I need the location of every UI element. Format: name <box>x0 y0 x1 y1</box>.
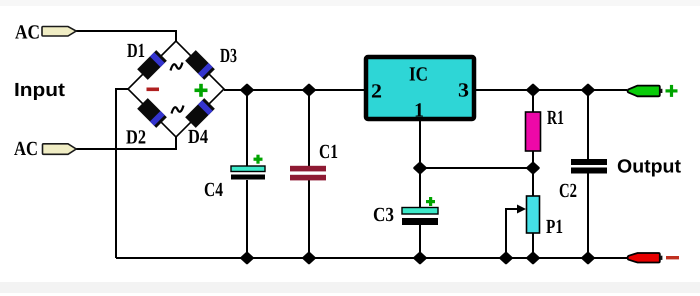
node junction IC pin1 / R1 wire left <box>415 163 425 173</box>
bridge minus sign <box>147 88 160 92</box>
svg-text:AC: AC <box>15 22 40 44</box>
wire top AC to bridge top node <box>76 31 176 42</box>
svg-text:C1: C1 <box>319 141 338 163</box>
wire C4 top lead <box>246 90 248 166</box>
diode D1 <box>137 50 167 80</box>
wire P1 bottom lead <box>532 233 534 258</box>
wire R1 bottom lead <box>532 151 534 168</box>
capacitor C4 electrolytic <box>231 166 265 180</box>
svg-text:Input: Input <box>14 80 66 101</box>
output plus sign <box>666 85 678 97</box>
AC input connector top <box>42 27 76 37</box>
svg-text:P1: P1 <box>546 216 563 238</box>
wire bridge plus node to IC pin 2 <box>224 89 364 91</box>
potentiometer P1 <box>527 196 540 233</box>
C3 plus sign <box>426 197 435 206</box>
node junction C2 bottom <box>583 253 593 263</box>
wire node to R1/P1 junction <box>420 167 533 169</box>
svg-text:Output: Output <box>617 157 682 178</box>
C4 plus sign <box>254 155 263 164</box>
wire C1 bottom lead <box>308 180 310 258</box>
diode D2 <box>137 98 167 128</box>
capacitor C1 <box>290 166 326 181</box>
diode D4 <box>185 98 215 128</box>
node junction C3 bottom <box>415 253 425 263</box>
P1 wiper arrow head <box>517 205 526 214</box>
svg-text:C3: C3 <box>373 204 394 226</box>
svg-text:D1: D1 <box>127 40 145 62</box>
wire C2 top lead <box>587 90 589 159</box>
wire C2 bottom lead <box>587 173 589 258</box>
svg-text:3: 3 <box>458 80 469 102</box>
output minus sign <box>666 256 679 259</box>
wire IC pin 3 to output plus <box>476 89 627 91</box>
resistor R1 <box>526 112 541 151</box>
node junction C4 top <box>242 85 252 95</box>
node junction R1 top <box>528 85 538 95</box>
svg-text:1: 1 <box>414 100 424 122</box>
node junction C1 top <box>304 85 314 95</box>
wire bottom rail <box>116 257 627 259</box>
bridge plus sign <box>195 84 208 97</box>
wire C4 bottom lead <box>246 180 248 258</box>
node junction P1 bottom <box>528 253 538 263</box>
svg-text:R1: R1 <box>547 107 564 129</box>
capacitor C2 <box>571 159 607 174</box>
bridge AC tilde top <box>171 63 183 71</box>
wire C1 top lead <box>308 90 310 166</box>
node junction C1 bottom <box>304 253 314 263</box>
wire bottom AC to bridge bottom node <box>76 137 176 149</box>
svg-text:D4: D4 <box>188 126 208 148</box>
node junction C4 bottom <box>242 253 252 263</box>
wire bridge minus node to left vertical down to bottom rail <box>116 89 128 258</box>
wire C3 bottom lead <box>419 225 421 258</box>
op-amp / regulator U1 IC box <box>366 57 474 119</box>
svg-text:C4: C4 <box>204 179 223 201</box>
wire P1 wiper to bottom rail <box>506 209 518 258</box>
node junction C2 top <box>583 85 593 95</box>
output minus connector <box>628 253 660 263</box>
svg-text:AC: AC <box>14 138 38 160</box>
svg-text:C2: C2 <box>559 180 577 202</box>
node junction R1 bottom P1 top <box>528 163 538 173</box>
AC input connector bottom <box>43 144 77 155</box>
wire IC pin 1 down to node <box>419 121 421 208</box>
diode D3 <box>185 50 215 80</box>
node junction wiper bottom <box>501 253 511 263</box>
wire bridge diamond outline <box>128 41 224 137</box>
wire R1 top lead <box>532 90 534 112</box>
wire P1 top lead <box>532 168 534 196</box>
output plus connector <box>628 86 660 97</box>
bridge AC tilde bottom <box>172 106 184 114</box>
svg-text:2: 2 <box>371 81 382 103</box>
svg-text:D3: D3 <box>220 45 237 67</box>
svg-text:D2: D2 <box>126 127 146 149</box>
svg-text:IC: IC <box>409 64 428 86</box>
capacitor C3 electrolytic <box>402 208 438 226</box>
